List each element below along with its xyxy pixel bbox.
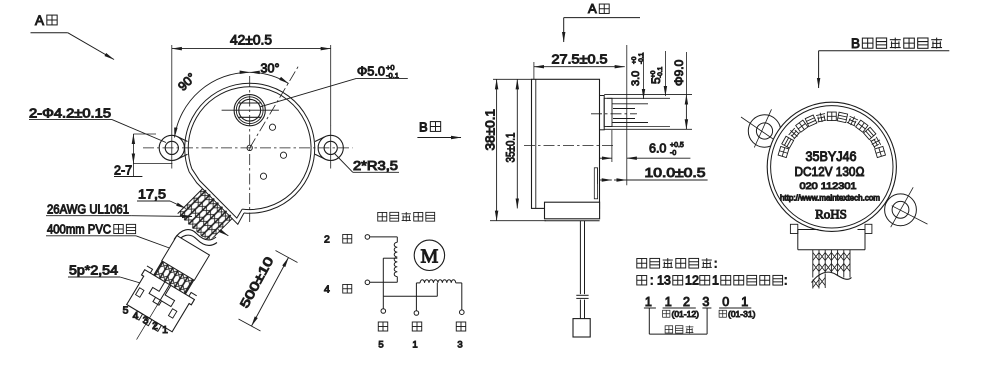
svg-text:1: 1 bbox=[162, 324, 168, 336]
label diameter 5.0 +0/-0.1 with leader bbox=[261, 63, 408, 107]
svg-text:38±0.1: 38±0.1 bbox=[484, 109, 498, 151]
front view: cable exit chute walls bbox=[189, 169, 244, 225]
side view: shaft centerline bbox=[591, 113, 637, 115]
svg-text:-0.1: -0.1 bbox=[657, 66, 664, 78]
svg-text:+0: +0 bbox=[650, 70, 657, 78]
svg-text:Φ5.0: Φ5.0 bbox=[357, 65, 385, 79]
svg-text:B: B bbox=[851, 36, 860, 51]
svg-text::: : bbox=[714, 257, 717, 271]
svg-text:-0: -0 bbox=[670, 150, 676, 157]
side view: motor body rectangle bbox=[532, 79, 600, 208]
svg-text:26AWG UL1061: 26AWG UL1061 bbox=[47, 203, 129, 217]
side view: A-direction arrow label bbox=[564, 1, 640, 42]
svg-text:6.0: 6.0 bbox=[649, 142, 666, 156]
svg-text:DC12V 130Ω: DC12V 130Ω bbox=[795, 164, 865, 179]
wiring diagram title bbox=[378, 212, 435, 221]
svg-text:1: 1 bbox=[665, 295, 672, 309]
svg-text:27.5±0.5: 27.5±0.5 bbox=[552, 53, 608, 67]
svg-text:2*R3,5: 2*R3,5 bbox=[353, 159, 398, 173]
dimension diameter 9.0 (rotated) bbox=[672, 52, 686, 129]
gregorian year bracket bbox=[649, 308, 707, 334]
B view: trademark label with leader bbox=[819, 36, 950, 88]
svg-text:RoHS: RoHS bbox=[815, 207, 847, 222]
wiring: terminal circles bbox=[365, 235, 464, 316]
svg-text:500±10: 500±10 bbox=[237, 254, 276, 310]
svg-text:2: 2 bbox=[324, 234, 330, 246]
side view: bottom flange bbox=[545, 202, 600, 221]
svg-text:http://www.maintextech.com: http://www.maintextech.com bbox=[780, 194, 880, 203]
side view: shaft profile lines bbox=[604, 95, 692, 130]
svg-text:4: 4 bbox=[133, 310, 139, 322]
label 2*R3,5 with leader bbox=[335, 154, 400, 174]
side view: shaft boss plate bbox=[600, 96, 605, 130]
label 5p*2,54 with leader bbox=[68, 264, 152, 287]
front view: 30 degree angled centerline bbox=[250, 66, 299, 148]
svg-text:10.0±0.5: 10.0±0.5 bbox=[645, 166, 706, 180]
B-direction view label with arrow bbox=[417, 120, 461, 138]
dimension 30 degree arc bbox=[250, 62, 289, 84]
dimension 35+-0.1 (vertical) bbox=[504, 79, 518, 208]
svg-text:3: 3 bbox=[457, 340, 462, 351]
side view: body centerline bbox=[524, 145, 614, 147]
dimension 6.0 +0.5/-0 bbox=[600, 130, 690, 162]
wiring: coil A (vertical) bbox=[394, 242, 397, 276]
svg-text:M: M bbox=[421, 246, 439, 268]
dimension 10.0+-0.5 bbox=[598, 166, 708, 184]
front view: output shaft hole (3 concentric circles + flats) bbox=[222, 95, 279, 126]
B view: motor back circle bbox=[767, 102, 896, 231]
svg-text:2: 2 bbox=[683, 295, 690, 309]
dimension 3.0 +0/-0.1 (rotated) bbox=[627, 45, 645, 185]
production date example line bbox=[637, 274, 788, 288]
svg-text:A: A bbox=[35, 13, 44, 28]
front view: left mounting ear bbox=[159, 126, 187, 169]
svg-text:2-7: 2-7 bbox=[114, 164, 132, 178]
svg-text:42±0.5: 42±0.5 bbox=[230, 33, 272, 48]
svg-text:12: 12 bbox=[685, 274, 699, 288]
svg-text:35±0.1: 35±0.1 bbox=[504, 132, 518, 162]
front view: center mark bbox=[247, 145, 252, 150]
B view: label plate texts bbox=[780, 149, 880, 222]
front view: motor body outline double circle bbox=[185, 83, 315, 213]
dimension 38+-0.1 (vertical) bbox=[484, 79, 547, 220]
front view: three small screw holes bbox=[260, 124, 286, 179]
production date explanation title bbox=[637, 257, 718, 271]
dimension 17,5 with leader arrows bbox=[137, 188, 228, 236]
front view: connector pin numbers 5 4 3 2 1 bbox=[123, 305, 169, 337]
label 400mm PVC sleeve with leader bbox=[46, 223, 174, 250]
front view: right mounting ear bbox=[315, 126, 343, 169]
dimension 42+-0.5 bbox=[172, 33, 331, 127]
month/day small labels bbox=[663, 309, 756, 319]
svg-text:30°: 30° bbox=[261, 62, 280, 76]
svg-text:-0.1: -0.1 bbox=[638, 52, 645, 64]
front view: ribbon cable band from exit bbox=[178, 188, 234, 244]
B view: bottom-right mounting ear with cross bbox=[885, 187, 928, 227]
production date digit row with underlines bbox=[644, 295, 751, 309]
svg-text::: : bbox=[784, 274, 787, 288]
svg-text:17,5: 17,5 bbox=[138, 188, 166, 202]
svg-text:1: 1 bbox=[741, 295, 748, 309]
B view: connector tabs behind bbox=[790, 224, 872, 233]
B view: bottom connector block bbox=[798, 230, 865, 250]
dimension 500+-10 along cable bbox=[237, 251, 297, 332]
label 2-7 with small vertical dimension at left ear bbox=[114, 134, 172, 178]
svg-text:0: 0 bbox=[722, 295, 729, 309]
dimension 90 degree arc bbox=[175, 70, 250, 137]
svg-text:5p*2,54: 5p*2,54 bbox=[69, 264, 118, 278]
svg-text:3: 3 bbox=[143, 315, 149, 327]
svg-text:B: B bbox=[419, 120, 428, 135]
svg-text:020 112301: 020 112301 bbox=[800, 181, 857, 192]
svg-text:+0: +0 bbox=[631, 56, 638, 64]
svg-text:(01-12): (01-12) bbox=[672, 309, 700, 319]
wiring: connection wires bbox=[370, 237, 462, 311]
front view: cable S-break symbol bbox=[174, 230, 217, 246]
svg-text:5: 5 bbox=[378, 340, 383, 351]
svg-text:1: 1 bbox=[645, 295, 652, 309]
dimension 27.5+-0.5 bbox=[534, 53, 625, 80]
front view: PVC sleeve section bbox=[153, 236, 209, 295]
svg-text:4: 4 bbox=[324, 284, 330, 296]
svg-text:2: 2 bbox=[152, 320, 158, 332]
svg-text:+0.5: +0.5 bbox=[670, 142, 684, 149]
svg-text:3: 3 bbox=[702, 295, 709, 309]
svg-text:2-Φ4.2±0.15: 2-Φ4.2±0.15 bbox=[29, 107, 111, 121]
front view: vertical centerline bbox=[249, 76, 251, 222]
svg-text:35BYJ46: 35BYJ46 bbox=[806, 149, 857, 164]
wiring: coil B (horizontal) bbox=[420, 280, 456, 283]
wiring: terminal labels bbox=[324, 234, 466, 351]
svg-text:: 13: : 13 bbox=[650, 274, 671, 288]
B view: top-left mounting ear with cross bbox=[741, 109, 784, 147]
svg-text:1: 1 bbox=[712, 274, 719, 288]
B view: hatched ribbon cable bbox=[812, 250, 852, 291]
wiring: motor symbol M bbox=[414, 240, 444, 270]
svg-text:A: A bbox=[588, 1, 597, 16]
front view: horizontal centerline bbox=[143, 147, 353, 149]
svg-text:1: 1 bbox=[412, 340, 417, 351]
svg-text:400mm PVC: 400mm PVC bbox=[47, 223, 111, 237]
svg-text:(01-31): (01-31) bbox=[728, 309, 756, 319]
A-direction view label (top left) bbox=[31, 13, 115, 60]
label 2-diameter4.2 +-0.15 with leader bbox=[29, 107, 166, 143]
side view: lead wires with break and connector bbox=[573, 221, 590, 337]
B view: curved company name text bbox=[778, 112, 885, 158]
svg-text:90°: 90° bbox=[175, 70, 198, 93]
label 26AWG UL1061 with leader bbox=[46, 203, 192, 217]
front view: 5-pin connector housing bbox=[112, 256, 203, 354]
svg-text:Φ9.0: Φ9.0 bbox=[672, 59, 686, 86]
svg-text:5: 5 bbox=[123, 305, 129, 317]
dimension 5 +0/-0.1 (rotated) bbox=[649, 51, 665, 96]
svg-text:3.0: 3.0 bbox=[630, 71, 642, 86]
